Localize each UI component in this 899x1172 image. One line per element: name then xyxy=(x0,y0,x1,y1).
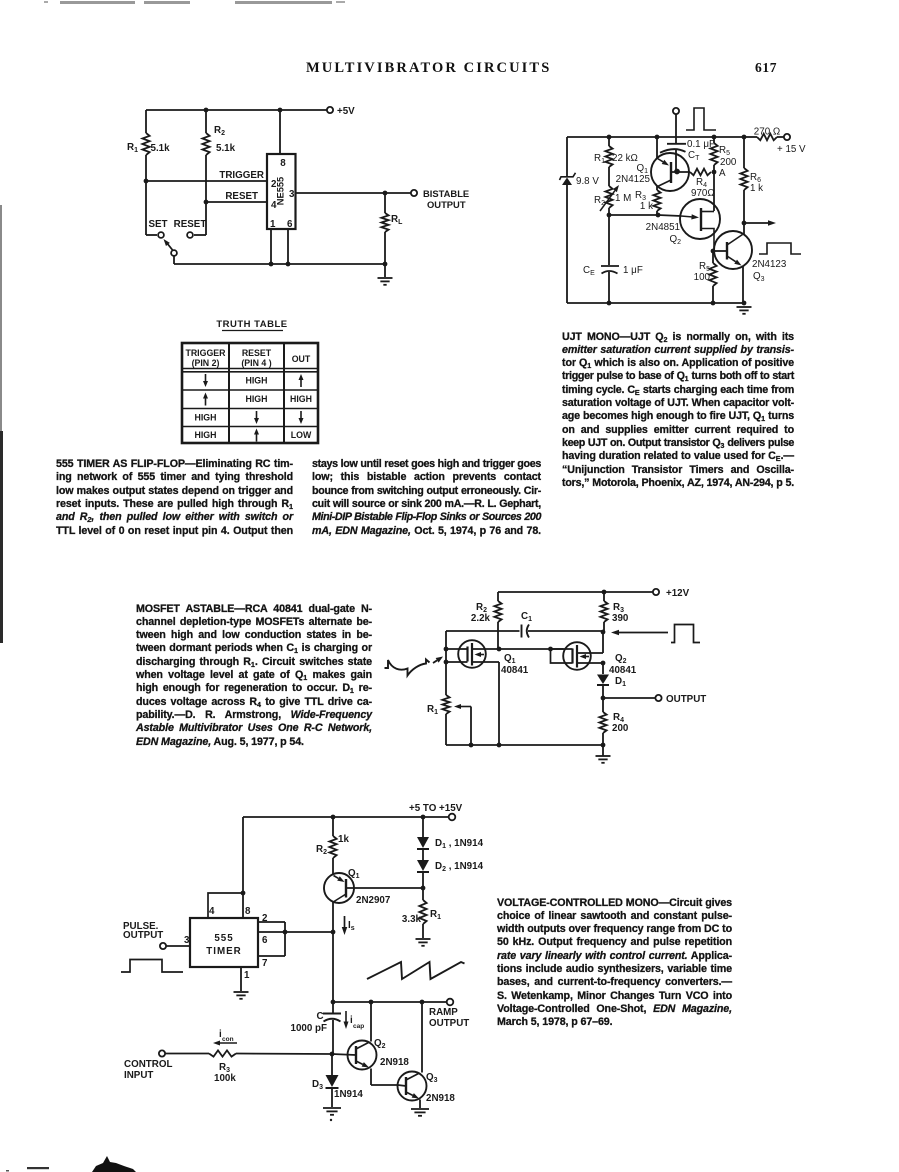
svg-text:1 μF: 1 μF xyxy=(623,265,643,276)
svg-text:R2: R2 xyxy=(214,125,225,137)
svg-text:555: 555 xyxy=(214,933,233,944)
svg-text:Q2: Q2 xyxy=(374,1038,386,1050)
svg-text:R2: R2 xyxy=(316,844,327,856)
svg-text:22 kΩ: 22 kΩ xyxy=(612,153,638,164)
svg-text:D1 , 1N914: D1 , 1N914 xyxy=(435,838,484,850)
svg-text:390: 390 xyxy=(612,613,629,624)
svg-text:Q2: Q2 xyxy=(615,653,627,665)
svg-text:1 k: 1 k xyxy=(750,183,763,194)
svg-text:1: 1 xyxy=(270,219,276,230)
svg-text:1k: 1k xyxy=(338,834,349,845)
svg-text:40841: 40841 xyxy=(609,665,637,676)
svg-text:5.1k: 5.1k xyxy=(151,143,171,154)
svg-text:OUT: OUT xyxy=(292,354,311,364)
svg-text:R5: R5 xyxy=(719,145,730,157)
svg-text:40841: 40841 xyxy=(501,665,529,676)
svg-text:D1: D1 xyxy=(615,676,626,688)
svg-text:9.8 V: 9.8 V xyxy=(576,176,599,187)
svg-text:8: 8 xyxy=(280,158,286,169)
svg-text:HIGH: HIGH xyxy=(195,413,217,423)
svg-text:R1: R1 xyxy=(127,142,138,154)
svg-text:1 k: 1 k xyxy=(640,201,653,212)
svg-text:A: A xyxy=(719,168,726,179)
svg-text:(PIN 2): (PIN 2) xyxy=(192,358,220,368)
svg-text:Q1: Q1 xyxy=(348,868,360,880)
svg-text:HIGH: HIGH xyxy=(246,376,268,386)
svg-text:RESET: RESET xyxy=(225,191,258,202)
svg-text:100k: 100k xyxy=(214,1073,236,1084)
svg-text:OUTPUT: OUTPUT xyxy=(123,930,163,941)
svg-text:R1: R1 xyxy=(594,153,605,165)
svg-text:1N914: 1N914 xyxy=(334,1089,363,1100)
svg-text:RESET: RESET xyxy=(242,348,272,358)
svg-text:OUTPUT: OUTPUT xyxy=(666,694,706,705)
svg-text:+5 TO +15V: +5 TO +15V xyxy=(409,803,463,814)
svg-text:2N4125: 2N4125 xyxy=(616,174,651,185)
svg-text:CT: CT xyxy=(688,150,700,162)
svg-text:2N4851: 2N4851 xyxy=(646,222,680,233)
svg-text:1: 1 xyxy=(244,970,250,981)
svg-text:Q3: Q3 xyxy=(753,271,765,283)
svg-text:TRIGGER: TRIGGER xyxy=(185,348,226,358)
svg-text:LOW: LOW xyxy=(291,430,312,440)
svg-text:HIGH: HIGH xyxy=(195,430,217,440)
svg-text:RL: RL xyxy=(391,214,403,226)
svg-text:3.3k: 3.3k xyxy=(402,914,422,925)
svg-text:Q3: Q3 xyxy=(426,1072,438,1084)
svg-text:5.1k: 5.1k xyxy=(216,143,236,154)
svg-text:HIGH: HIGH xyxy=(290,394,312,404)
svg-text:2N918: 2N918 xyxy=(380,1057,409,1068)
svg-text:7: 7 xyxy=(262,958,268,969)
svg-text:D3: D3 xyxy=(312,1079,323,1091)
svg-text:970Ω: 970Ω xyxy=(691,188,715,199)
svg-text:+12V: +12V xyxy=(666,588,690,599)
svg-text:SET: SET xyxy=(148,219,167,230)
svg-text:200: 200 xyxy=(612,723,629,734)
svg-text:NE555: NE555 xyxy=(276,177,286,205)
svg-text:HIGH: HIGH xyxy=(246,394,268,404)
svg-text:1 M: 1 M xyxy=(615,193,631,204)
svg-text:6: 6 xyxy=(287,219,293,230)
svg-text:3: 3 xyxy=(184,935,190,946)
svg-text:1000 pF: 1000 pF xyxy=(291,1023,328,1034)
svg-text:INPUT: INPUT xyxy=(124,1070,153,1081)
svg-text:Q1: Q1 xyxy=(504,653,516,665)
svg-text:200: 200 xyxy=(720,157,737,168)
svg-text:OUTPUT: OUTPUT xyxy=(429,1018,469,1029)
svg-text:R1: R1 xyxy=(427,704,438,716)
svg-text:2N918: 2N918 xyxy=(426,1093,455,1104)
svg-text:(PIN 4 ): (PIN 4 ) xyxy=(241,358,271,368)
svg-text:BISTABLE: BISTABLE xyxy=(423,188,469,199)
svg-text:con: con xyxy=(222,1036,234,1043)
svg-text:CONTROL: CONTROL xyxy=(124,1059,172,1070)
svg-text:6: 6 xyxy=(262,935,268,946)
svg-text:C: C xyxy=(317,1011,324,1022)
svg-text:TRUTH TABLE: TRUTH TABLE xyxy=(216,319,287,330)
svg-text:2.2k: 2.2k xyxy=(471,613,491,624)
svg-text:Q2: Q2 xyxy=(669,234,681,246)
svg-text:OUTPUT: OUTPUT xyxy=(427,199,466,210)
svg-text:TRIGGER: TRIGGER xyxy=(219,170,264,181)
svg-text:2N4123: 2N4123 xyxy=(752,259,787,270)
svg-text:+5V: +5V xyxy=(337,106,355,117)
svg-text:3: 3 xyxy=(289,189,295,200)
svg-text:R1: R1 xyxy=(430,909,441,921)
svg-text:4: 4 xyxy=(209,906,215,917)
svg-text:8: 8 xyxy=(245,906,251,917)
svg-text:Is: Is xyxy=(348,920,355,932)
svg-text:TIMER: TIMER xyxy=(206,946,241,957)
svg-text:CE: CE xyxy=(583,265,595,277)
svg-text:RESET: RESET xyxy=(174,219,207,230)
svg-text:C1: C1 xyxy=(521,611,532,623)
svg-text:D2 , 1N914: D2 , 1N914 xyxy=(435,861,484,873)
svg-text:2N2907: 2N2907 xyxy=(356,895,391,906)
svg-text:cap: cap xyxy=(353,1023,364,1030)
svg-text:+ 15 V: + 15 V xyxy=(777,144,806,155)
svg-text:100: 100 xyxy=(694,272,711,283)
svg-text:270 Ω: 270 Ω xyxy=(754,127,780,138)
svg-text:RAMP: RAMP xyxy=(429,1007,458,1018)
